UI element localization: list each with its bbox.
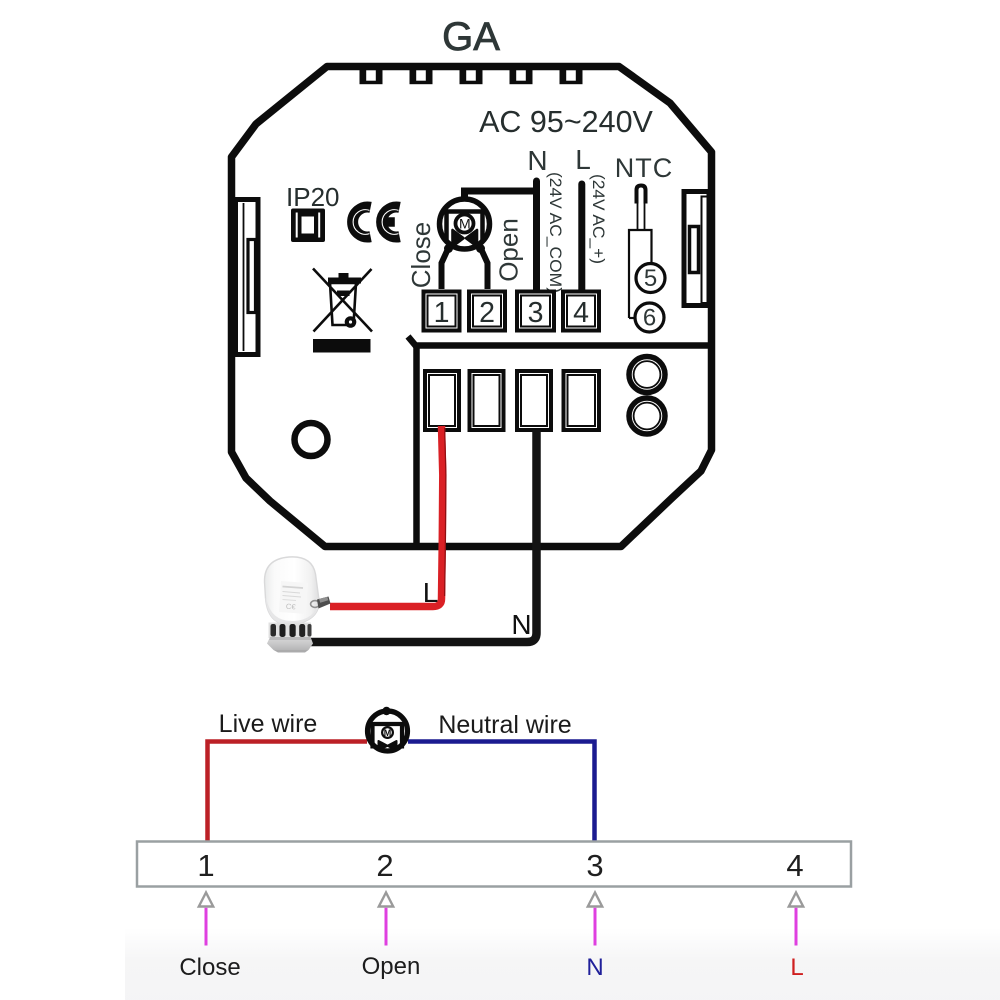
wire entry slot 4 xyxy=(565,373,598,429)
terminal strip rectangle xyxy=(137,842,851,887)
svg-text:(24V AC_COM): (24V AC_COM) xyxy=(546,172,565,293)
svg-text:3: 3 xyxy=(586,848,603,883)
svg-text:GA: GA xyxy=(442,15,500,59)
top notch 3 xyxy=(460,63,483,84)
wire: valve close to terminal 1 xyxy=(442,251,448,289)
svg-text:Close: Close xyxy=(179,954,240,981)
arrow 3 (N) xyxy=(588,893,602,946)
terminal circle 6 xyxy=(635,303,664,332)
svg-text:4: 4 xyxy=(786,848,803,883)
CE mark xyxy=(353,207,400,237)
terminal box 4 xyxy=(565,293,598,329)
svg-text:N: N xyxy=(586,954,603,981)
svg-text:M: M xyxy=(384,728,392,738)
wire: N line down to terminal 3 xyxy=(533,181,540,290)
svg-text:4: 4 xyxy=(573,297,589,329)
top notch 1 xyxy=(360,63,383,84)
NTC sensor probe xyxy=(629,186,652,319)
wire entry slot 3 xyxy=(519,373,550,429)
svg-text:1: 1 xyxy=(434,297,450,329)
screw hole ring upper xyxy=(629,357,665,393)
svg-text:M: M xyxy=(459,216,471,232)
svg-text:AC 95~240V: AC 95~240V xyxy=(479,105,653,139)
wire: valve open to terminal 2 xyxy=(482,251,488,289)
motorized valve symbol U1 xyxy=(440,199,490,253)
svg-text:Open: Open xyxy=(362,953,421,980)
screw hole ring lower xyxy=(629,398,665,434)
right side clip tab xyxy=(684,192,709,306)
svg-text:N: N xyxy=(511,609,531,640)
wire entry slot 2 xyxy=(471,373,502,429)
bottom-left screw hole xyxy=(295,423,328,456)
svg-text:L: L xyxy=(790,954,803,981)
svg-text:Neutral wire: Neutral wire xyxy=(438,711,571,739)
svg-text:IP20: IP20 xyxy=(286,182,340,212)
top notch 2 xyxy=(410,63,433,84)
svg-text:1: 1 xyxy=(197,848,214,883)
arrow 1 (Close) xyxy=(199,893,213,946)
thermostat back-plate outline xyxy=(232,67,712,547)
red live wire from terminal 1 xyxy=(330,426,443,607)
svg-text:6: 6 xyxy=(643,305,656,332)
arrow 4 (L) xyxy=(789,893,803,946)
IP20 icon xyxy=(291,209,325,243)
svg-text:2: 2 xyxy=(376,848,393,883)
svg-text:2: 2 xyxy=(479,297,495,329)
wire: motor common to N line xyxy=(465,191,538,199)
svg-text:N: N xyxy=(527,145,547,176)
WEEE crossed-out bin icon xyxy=(313,269,372,353)
black neutral wire from terminal 3 xyxy=(303,430,537,642)
terminal box 3 xyxy=(519,293,553,329)
svg-text:3: 3 xyxy=(528,297,544,329)
wire: L line down to terminal 4 xyxy=(578,184,585,290)
top notch 5 xyxy=(560,63,583,84)
terminal block shelf line xyxy=(408,337,708,346)
svg-text:L: L xyxy=(423,577,439,608)
svg-text:L: L xyxy=(575,144,591,175)
svg-text:Close: Close xyxy=(406,222,436,288)
terminal circle 5 xyxy=(636,264,665,293)
arrow 2 (Open) xyxy=(379,893,393,946)
wire entry slot 1 xyxy=(427,373,458,429)
svg-text:NTC: NTC xyxy=(615,153,674,183)
svg-text:5: 5 xyxy=(644,265,657,292)
svg-text:Live wire: Live wire xyxy=(219,710,318,738)
svg-text:Open: Open xyxy=(494,218,524,282)
blue neutral wire lower xyxy=(408,742,595,842)
svg-text:C€: C€ xyxy=(286,602,297,612)
red live wire lower xyxy=(208,742,368,842)
terminal box 2 xyxy=(471,293,504,329)
terminal box 1 xyxy=(425,293,458,329)
left side clip tab xyxy=(236,200,259,355)
top notch 4 xyxy=(510,63,533,84)
svg-text:(24V AC_+): (24V AC_+) xyxy=(589,174,608,264)
terminal block left edge xyxy=(413,345,420,544)
small valve motor symbol xyxy=(368,707,408,751)
